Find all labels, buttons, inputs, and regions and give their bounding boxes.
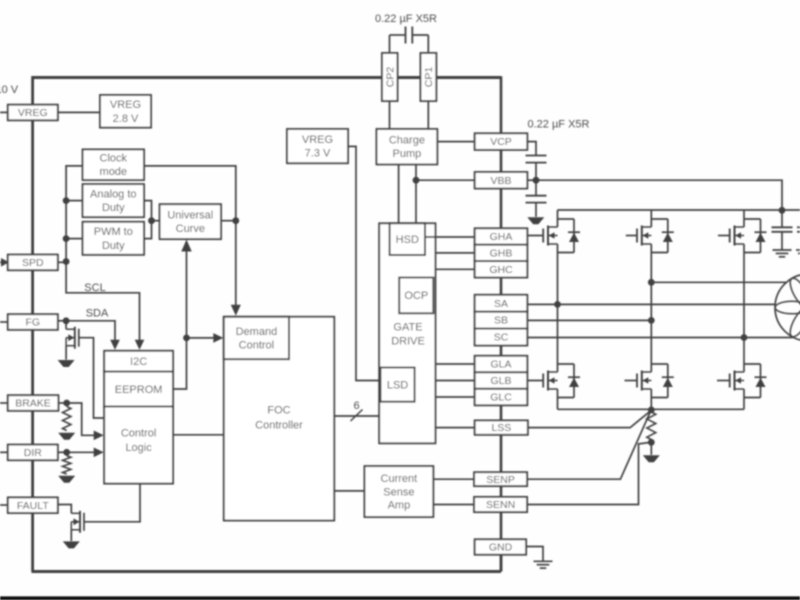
svg-text:FAULT: FAULT <box>17 500 49 512</box>
wire lower cap to ground <box>535 203 537 217</box>
svg-text:VBB: VBB <box>490 175 511 187</box>
wire GLC gate lead <box>717 380 730 382</box>
wire FG stub <box>0 321 8 323</box>
block Current Sense Amp <box>365 466 434 517</box>
pin SA <box>475 295 528 312</box>
capacitor bulk <box>772 226 793 228</box>
wire SB tap <box>527 319 651 321</box>
wire VREG to regulator <box>58 111 100 113</box>
ground FG <box>58 360 75 367</box>
resistor DIR pulldown <box>63 456 71 474</box>
wire high-side B source <box>650 244 652 253</box>
wire SCL <box>66 262 139 341</box>
wire high-side B drain <box>650 210 652 227</box>
wire to Analog to Duty <box>66 200 83 202</box>
svg-text:SC: SC <box>494 332 509 344</box>
wire low-side A source <box>557 389 559 409</box>
wire DIR to junction <box>58 451 67 453</box>
wire VBB to bridge <box>536 180 782 210</box>
resistor sense <box>647 412 656 440</box>
wire amp to SENP <box>433 478 474 480</box>
pin SPD <box>8 255 58 271</box>
wire GHB gate lead <box>626 235 637 237</box>
wire gate drive to GLC <box>435 396 474 398</box>
pin FAULT <box>8 497 58 513</box>
pin GHA <box>475 228 528 244</box>
svg-text:GLC: GLC <box>490 392 512 404</box>
transistor FAULT output <box>79 511 81 533</box>
wire GLA gate lead <box>527 380 543 382</box>
svg-text:FG: FG <box>26 317 41 329</box>
svg-text:Duty: Duty <box>102 202 125 214</box>
pin CP1 <box>421 53 437 101</box>
wire VCP to cap <box>527 142 536 156</box>
pin BRAKE <box>8 395 59 411</box>
svg-text:EEPROM: EEPROM <box>115 384 163 396</box>
wire low-side C source <box>743 389 745 409</box>
wire charge pump to HSD left <box>398 164 400 223</box>
node SPD junction <box>63 258 70 265</box>
pin GLA <box>475 356 528 373</box>
svg-text:FOC: FOC <box>267 405 290 417</box>
pin FG <box>8 314 58 330</box>
svg-text:LSD: LSD <box>387 379 408 391</box>
wire SENN to sense <box>527 442 650 504</box>
pin GHB <box>475 245 528 261</box>
svg-text:GLA: GLA <box>490 359 511 371</box>
node BRAKE junction <box>63 400 70 407</box>
svg-text:SB: SB <box>494 315 508 327</box>
block PWM to Duty <box>83 222 144 255</box>
capacitor edge partial <box>797 226 800 228</box>
pin GHC <box>475 261 528 277</box>
pin LSS <box>475 420 528 434</box>
wire rail to bulk cap <box>781 210 783 227</box>
wire SPD to junction <box>58 261 66 263</box>
wire into Universal Curve <box>152 220 160 222</box>
wire EEPROM to curve <box>173 246 187 389</box>
pin GLB <box>475 372 528 389</box>
svg-text:Amp: Amp <box>388 499 411 511</box>
wire DIR stub <box>0 451 8 453</box>
pin CP2 <box>382 53 398 101</box>
transistor high-side A <box>542 229 544 243</box>
svg-text:SA: SA <box>494 298 508 310</box>
svg-text:OCP: OCP <box>404 290 428 302</box>
svg-text:GHB: GHB <box>490 247 513 259</box>
wire charge pump to VCP <box>437 141 474 143</box>
node VBB feed tap <box>413 177 420 184</box>
IC package boundary top edge <box>32 76 502 79</box>
wire FG drain lead <box>65 321 67 329</box>
wire phase column B <box>650 253 652 364</box>
wire phase column A <box>557 253 559 304</box>
block I2C <box>104 351 173 372</box>
wire demand control input <box>187 337 216 339</box>
IC package boundary left edge <box>31 76 34 571</box>
block Clock mode <box>83 149 144 180</box>
wire LSS to sense <box>528 411 650 427</box>
wire CP1 to charge pump <box>427 101 429 129</box>
diode body high-side B <box>651 218 668 220</box>
svg-text:2.8 V: 2.8 V <box>113 113 139 125</box>
wire low-side A drain column <box>557 304 559 370</box>
transistor low-side A <box>542 374 544 388</box>
wire low-side A drain <box>557 371 559 373</box>
svg-text:SENP: SENP <box>486 474 515 486</box>
svg-text:SDA: SDA <box>86 308 109 320</box>
wire low-side B source <box>650 389 652 409</box>
ground FAULT <box>63 541 80 548</box>
block Control Logic <box>104 407 173 484</box>
block Analog to Duty <box>83 184 144 217</box>
svg-text:0.22 µF X5R: 0.22 µF X5R <box>375 13 437 25</box>
wire GHC gate lead <box>718 235 730 237</box>
svg-text:BRAKE: BRAKE <box>15 398 51 410</box>
ground BRAKE <box>58 433 75 440</box>
bottom border bar <box>0 596 800 600</box>
node Analog-to-Duty tap <box>63 197 70 204</box>
ground VBB cap <box>527 217 544 224</box>
wire DIR to control logic <box>67 451 96 453</box>
svg-text:GHA: GHA <box>490 231 513 243</box>
diode body high-side C <box>744 218 761 220</box>
bus slash <box>351 410 363 422</box>
svg-text:VREG: VREG <box>18 107 48 119</box>
wire demand feed <box>235 221 237 307</box>
svg-text:Clock: Clock <box>100 153 128 165</box>
wire Analog to merge <box>144 201 152 221</box>
wire HSD to GHA <box>425 236 475 238</box>
wire sense to ground <box>650 442 652 455</box>
wire SDA <box>66 321 115 342</box>
pin DIR <box>8 445 58 461</box>
wire gate drive to GHB <box>435 252 474 254</box>
wire cap to CP1 <box>427 35 429 53</box>
diode body low-side B <box>651 363 668 365</box>
node phase A junction <box>554 301 561 308</box>
svg-text:I2C: I2C <box>130 356 147 368</box>
block EEPROM <box>104 372 173 407</box>
svg-text:DIR: DIR <box>24 447 43 459</box>
wire FAULT source <box>70 530 72 541</box>
wire control logic to FOC <box>173 434 224 436</box>
node sense resistor bottom <box>648 439 655 446</box>
svg-text:GATE: GATE <box>393 322 422 334</box>
wire FAULT stub <box>0 504 8 506</box>
pin VCP <box>475 133 528 150</box>
wire VBB rail <box>527 179 536 181</box>
pin VBB <box>475 172 528 189</box>
wire source rail <box>558 408 745 410</box>
svg-text:10 V: 10 V <box>0 84 19 96</box>
wire FG source <box>65 346 67 360</box>
wire SPD riser <box>66 166 83 262</box>
ground sense resistor <box>643 455 660 462</box>
wire GND to earth <box>526 547 543 562</box>
node FG junction <box>63 317 70 324</box>
diode body low-side C <box>744 363 761 365</box>
svg-text:SPD: SPD <box>22 257 44 269</box>
svg-text:Curve: Curve <box>176 223 205 235</box>
IC package boundary right edge <box>500 76 503 571</box>
block Charge Pump <box>377 129 438 164</box>
block HSD <box>390 223 425 255</box>
wire high-side C drain <box>743 210 745 227</box>
svg-text:7.3 V: 7.3 V <box>305 148 331 160</box>
resistor BRAKE pulldown <box>63 407 71 431</box>
wire SENP to sense <box>527 412 650 479</box>
wire FG to junction <box>58 320 66 322</box>
svg-text:Logic: Logic <box>125 442 152 454</box>
transistor high-side C <box>729 229 731 243</box>
svg-text:DRIVE: DRIVE <box>391 336 425 348</box>
block VREG 2.8 V <box>100 95 151 128</box>
wire gate drive to GLB <box>435 380 474 382</box>
svg-text:LSS: LSS <box>491 422 511 434</box>
wire low-side C drain <box>743 364 745 372</box>
svg-text:HSD: HSD <box>396 234 419 246</box>
svg-text:Control: Control <box>121 428 156 440</box>
svg-text:Analog to: Analog to <box>90 189 136 201</box>
svg-text:Universal: Universal <box>167 210 213 222</box>
node demand tap <box>183 335 190 342</box>
capacitor VBB bypass <box>526 195 547 197</box>
svg-text:Pump: Pump <box>393 148 422 160</box>
wire cap to VBB node <box>535 163 537 181</box>
ground edge partial <box>796 249 800 251</box>
wire phase B out <box>651 281 787 283</box>
ground DIR <box>58 476 75 483</box>
transistor low-side B <box>636 374 638 388</box>
wire BRAKE stub <box>0 402 8 404</box>
block Universal Curve <box>160 204 221 239</box>
wire Clock mode output <box>144 166 236 221</box>
wire VREG pin stub <box>0 111 8 113</box>
transistor low-side C <box>729 374 731 388</box>
node sense resistor top <box>648 407 655 414</box>
pin SENN <box>474 497 527 512</box>
svg-text:CP1: CP1 <box>423 67 435 88</box>
ground GND earth <box>534 560 553 562</box>
node phase B junction <box>648 279 655 286</box>
node curve input merge <box>148 217 155 224</box>
pin GND <box>475 539 526 554</box>
wire to PWM to Duty <box>66 238 83 240</box>
svg-text:Controller: Controller <box>255 420 303 432</box>
wire phase column C <box>743 253 745 364</box>
node VBB cap junction <box>533 177 540 184</box>
wire charge pump to HSD right <box>415 164 417 223</box>
svg-text:Sense: Sense <box>383 486 414 498</box>
node SB junction <box>648 317 655 324</box>
pin SENP <box>474 472 527 486</box>
wire FAULT drain lead <box>58 505 72 514</box>
block VREG 7.3 V <box>287 129 348 163</box>
wire GHA gate lead <box>527 235 543 237</box>
svg-text:PWM to: PWM to <box>94 226 133 238</box>
wire GND pin to bottom rail <box>500 555 503 572</box>
svg-text:Control: Control <box>239 340 274 352</box>
wire Universal Curve output <box>221 220 236 222</box>
pin GLC <box>475 389 528 406</box>
svg-text:0.22 µF X5R: 0.22 µF X5R <box>528 119 590 131</box>
svg-text:Charge: Charge <box>389 135 425 147</box>
wire VBB feed <box>416 179 475 181</box>
wire BRAKE to junction <box>58 402 66 404</box>
diode body high-side A <box>558 218 575 220</box>
wire gate control bus <box>334 415 379 417</box>
pin VREG <box>8 105 58 121</box>
motor M <box>775 274 800 341</box>
svg-text:Duty: Duty <box>102 240 125 252</box>
wire VBB node to lower cap <box>535 180 537 196</box>
svg-text:GLB: GLB <box>490 375 511 387</box>
block GATE DRIVE <box>379 223 435 443</box>
svg-text:Demand: Demand <box>236 326 278 338</box>
block FOC Controller <box>224 317 334 521</box>
wire GLB gate lead <box>625 380 638 382</box>
wire phase C <box>527 337 792 339</box>
diode body low-side A <box>558 363 575 365</box>
wire gate drive to GHC <box>435 268 474 270</box>
block Demand Control <box>224 317 289 359</box>
svg-text:CP2: CP2 <box>384 67 396 88</box>
wire gate drive to LSS <box>435 427 474 429</box>
capacitor charge pump CP <box>390 34 406 36</box>
wire BRAKE to control logic <box>67 403 96 435</box>
wire bridge supply rail <box>558 209 800 211</box>
svg-text:Current: Current <box>381 473 418 485</box>
svg-text:SENN: SENN <box>486 499 515 511</box>
svg-text:6: 6 <box>353 400 359 412</box>
wire bulk cap to ground <box>781 232 783 250</box>
node DIR junction <box>63 449 70 456</box>
wire FOC to current sense amp <box>334 490 364 492</box>
wire high-side C source <box>743 244 745 253</box>
block LSD <box>381 368 415 402</box>
IC package boundary bottom edge <box>32 570 502 573</box>
wire FAULT gate lead <box>84 484 140 522</box>
svg-text:VCP: VCP <box>490 136 512 148</box>
capacitor VCP bypass <box>526 155 547 157</box>
wire cap to CP2 <box>389 35 391 53</box>
svg-text:GND: GND <box>489 542 513 554</box>
wire PWM to merge <box>144 221 152 239</box>
ground bulk cap <box>773 249 792 251</box>
transistor FG output <box>74 327 76 349</box>
svg-text:VREG: VREG <box>302 134 333 146</box>
wire CP2 to charge pump <box>389 101 391 129</box>
pin SB <box>475 312 528 329</box>
svg-text:VREG: VREG <box>110 99 141 111</box>
wire high-side A drain <box>557 210 559 227</box>
node PWM-to-Duty tap <box>63 235 70 242</box>
node curve output junction <box>232 217 239 224</box>
pin SC <box>475 329 528 346</box>
wire FG gate lead <box>79 338 104 418</box>
wire SPD input stub <box>0 261 4 263</box>
wire gate drive to GLA <box>435 363 474 365</box>
svg-text:GHC: GHC <box>489 264 513 276</box>
transistor high-side B <box>636 229 638 243</box>
node phase C junction <box>741 334 748 341</box>
wire VREG7.3 to LSD <box>348 146 381 380</box>
svg-text:mode: mode <box>100 166 128 178</box>
block OCP <box>399 278 433 314</box>
wire amp to SENN <box>433 504 474 506</box>
node bridge supply junction <box>779 207 786 214</box>
wire low-side B drain <box>650 364 652 372</box>
wire high-side A source <box>557 244 559 253</box>
wire phase A <box>527 303 775 305</box>
